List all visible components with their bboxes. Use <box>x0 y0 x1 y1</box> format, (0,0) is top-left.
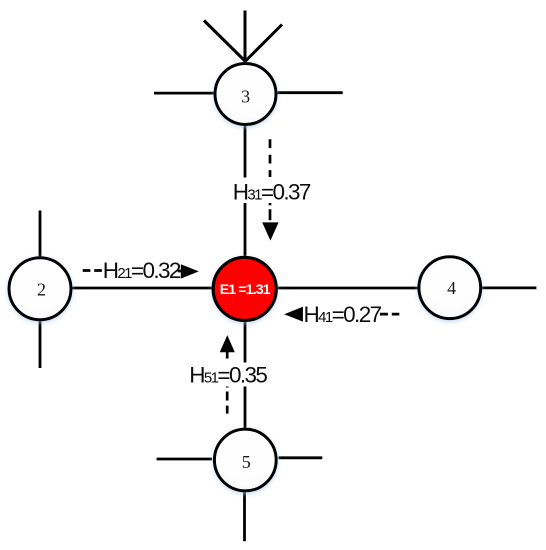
label mask H31 <box>231 178 311 204</box>
wire: node2 bottom vertical stub <box>39 321 42 368</box>
wire: node5 left horizontal stub <box>157 458 212 461</box>
dashed arrow H31 (node3 to E1, pointing down) <box>269 139 272 177</box>
node 4 <box>419 257 481 319</box>
svg-text:2: 2 <box>37 279 46 299</box>
wire: E1 to node4 horizontal link <box>277 287 418 290</box>
svg-text:H51=0.35: H51=0.35 <box>189 362 267 387</box>
wire: node3 right diagonal stub <box>245 25 282 62</box>
arrowhead stem H51 <box>226 351 229 359</box>
svg-text:5: 5 <box>242 452 251 472</box>
arrowhead H31 <box>262 222 278 240</box>
svg-text:E1 =1.31: E1 =1.31 <box>220 282 271 298</box>
arrowhead H51 <box>220 335 235 352</box>
arrowhead H21 <box>178 270 181 273</box>
wire: node2 to E1 horizontal link <box>71 287 213 290</box>
svg-text:4: 4 <box>447 278 456 298</box>
wire: node3 left diagonal stub <box>204 21 246 62</box>
svg-text:3: 3 <box>241 86 250 106</box>
wire: node4 right horizontal stub <box>481 286 536 289</box>
node 2 <box>9 258 71 320</box>
wire: node5 bottom vertical stub <box>243 490 246 541</box>
wire: node2 top vertical stub <box>39 211 42 258</box>
dashed arrow H51 (node5 to E1, pointing up) <box>226 385 229 413</box>
label mask H51 <box>189 363 267 387</box>
svg-text:H21=0.32: H21=0.32 <box>103 258 181 283</box>
wire: node5 right horizontal stub <box>279 456 323 459</box>
dashed arrow H21 (node2 to E1, pointing right) <box>83 269 102 272</box>
wire: E1 to node5 vertical link <box>244 320 247 429</box>
wire: node3 left horizontal stub <box>154 92 214 95</box>
node 3 <box>215 64 276 125</box>
wire: node3 top vertical stub <box>244 11 247 62</box>
dashed arrow H41 (node4 to E1, pointing left) <box>380 313 399 316</box>
wire: node3 to E1 vertical link <box>244 125 247 258</box>
svg-text:H31=0.37: H31=0.37 <box>233 180 311 205</box>
arrowhead H41 <box>284 307 303 322</box>
svg-text:H41=0.27: H41=0.27 <box>303 302 381 327</box>
node 5 <box>214 429 276 491</box>
node E1 (red) <box>213 257 276 320</box>
wire: node3 right horizontal stub <box>278 91 343 94</box>
